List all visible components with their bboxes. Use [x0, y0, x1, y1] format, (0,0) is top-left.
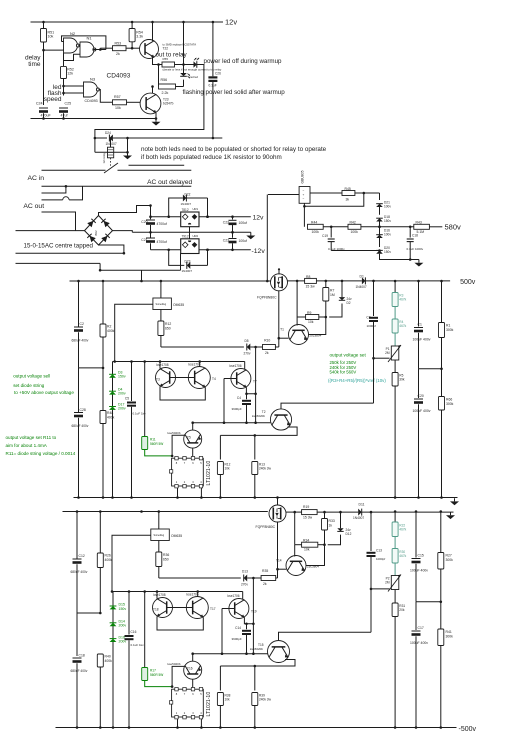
resistor R31 20k — [394, 590, 396, 604]
wire OM635 left pin — [115, 304, 153, 361]
wire T23 emitter to ground — [155, 113, 157, 119]
svg-text:100k: 100k — [351, 230, 359, 234]
wire 12v output — [199, 216, 251, 218]
wire feedback drop from gate bus bottom — [252, 578, 254, 654]
diode D16 100v — [379, 227, 381, 238]
svg-text:650: 650 — [165, 327, 171, 331]
wire bottom top rail — [63, 511, 268, 513]
svg-text:C13: C13 — [376, 549, 382, 553]
svg-text:R57: R57 — [114, 95, 121, 99]
capacitor C21 4700uf — [149, 231, 152, 234]
svg-text:R8: R8 — [306, 275, 310, 279]
bridge diode top-left — [87, 219, 95, 227]
svg-text:400k: 400k — [105, 659, 113, 663]
svg-text:12v: 12v — [225, 18, 237, 27]
svg-text:output voltage set R11 to: output voltage set R11 to — [6, 435, 57, 440]
svg-text:R55: R55 — [163, 57, 169, 61]
wire T3 T4 emitter link — [160, 386, 205, 400]
svg-text:T1: T1 — [280, 328, 284, 332]
wire Q1 source to R8 — [288, 280, 305, 282]
wire R52 top to N1 input — [64, 54, 81, 60]
svg-text:240k 3w: 240k 3w — [259, 698, 272, 702]
wire T22 collector to LED row — [153, 57, 163, 65]
svg-text:R10: R10 — [264, 338, 270, 342]
resistor R35 2k — [261, 576, 276, 581]
svg-text:580v: 580v — [445, 223, 462, 232]
svg-text:C25: C25 — [65, 102, 72, 106]
resistor R13 240k 3w — [252, 462, 258, 475]
transistor T23 BC547 — [140, 93, 161, 114]
svg-text:C18: C18 — [412, 234, 418, 238]
svg-text:R34: R34 — [303, 539, 309, 543]
wire AC in line after relay — [118, 169, 192, 171]
svg-text:C23: C23 — [223, 239, 229, 243]
svg-text:kse5020b: kse5020b — [168, 431, 181, 435]
wire T14 collector to gate line — [278, 568, 287, 570]
svg-text:200v: 200v — [118, 407, 126, 411]
wire N3 output to R57 — [99, 90, 113, 103]
svg-text:400k: 400k — [105, 558, 113, 562]
svg-text:47uf: 47uf — [61, 114, 68, 118]
wire 0v line — [132, 231, 251, 233]
svg-text:R7: R7 — [330, 289, 334, 293]
svg-text:D22: D22 — [185, 193, 191, 197]
mosfet Q2 FQPF8N80C — [269, 505, 286, 522]
svg-text:kse1706: kse1706 — [230, 364, 242, 368]
wire GBU805 input feed — [268, 194, 299, 196]
svg-text:out to relay: out to relay — [156, 52, 188, 59]
svg-text:to +50V above output voltage: to +50V above output voltage — [14, 390, 74, 395]
ground symbol 12v supply — [250, 232, 252, 235]
svg-text:12k: 12k — [67, 72, 73, 76]
gate N2 CD4093 — [64, 38, 78, 53]
capacitor C5 0.1uF 1kv — [131, 362, 133, 402]
svg-text:kse5020b: kse5020b — [250, 647, 263, 651]
resistor R56 — [158, 65, 160, 87]
svg-text:R36: R36 — [163, 553, 169, 557]
svg-text:C28: C28 — [80, 408, 86, 412]
capacitor C1 100uF 400v — [418, 281, 420, 327]
wire AC line 4 — [42, 212, 76, 231]
resistor R57 — [113, 100, 127, 105]
bridge diode bottom-right — [101, 234, 109, 242]
svg-text:0.1uF 1kv: 0.1uF 1kv — [133, 411, 147, 415]
svg-text:aim for about 1.4mA: aim for about 1.4mA — [6, 443, 48, 448]
svg-text:R12: R12 — [165, 322, 171, 326]
resistor R51 — [43, 22, 45, 29]
wire T7 emitter to feedback drop — [246, 387, 255, 394]
wire Q2 drain from mid rail — [277, 498, 279, 506]
svg-text:T14: T14 — [276, 559, 282, 563]
svg-text:T22: T22 — [163, 47, 169, 51]
svg-text:7812: 7812 — [182, 208, 189, 212]
svg-text:power led off during warmup: power led off during warmup — [204, 58, 283, 65]
svg-text:N3: N3 — [90, 77, 96, 82]
svg-text:10k: 10k — [225, 698, 231, 702]
svg-text:N2: N2 — [70, 31, 76, 36]
diode D15 150v — [112, 595, 114, 643]
svg-text:CD4093: CD4093 — [85, 99, 98, 103]
svg-text:if both leds populated reduce: if both leds populated reduce 1K resisto… — [141, 154, 282, 161]
svg-text:D11: D11 — [359, 502, 365, 506]
svg-text:R42: R42 — [350, 221, 356, 225]
svg-text:1N4007: 1N4007 — [106, 142, 117, 146]
wire gate bus bottom — [159, 577, 241, 579]
reference LT1021-10 — [172, 458, 204, 486]
diode D18 150v — [376, 218, 383, 221]
svg-text:100uF 400v: 100uF 400v — [410, 641, 428, 645]
wire N2 out to N1 in — [78, 45, 80, 47]
wire R39 column top — [254, 666, 256, 691]
wire bridge plus output — [99, 206, 151, 216]
svg-text:SomeReg: SomeReg — [156, 303, 167, 306]
mosfet Q1 FQPF8N80C — [271, 274, 288, 291]
transistor T19 — [229, 599, 249, 619]
wire relay bus upper — [95, 65, 204, 153]
svg-text:560R 5W: 560R 5W — [150, 673, 163, 677]
transistor T22 BC557 — [140, 40, 159, 59]
zener D12 24v — [340, 512, 342, 528]
svg-text:3900pF: 3900pF — [232, 407, 242, 411]
reference LT1021-10 bottom — [172, 689, 204, 717]
resistor R41 300k — [440, 602, 442, 629]
svg-text:speed: speed — [44, 96, 62, 103]
wire 580v output — [380, 226, 414, 228]
svg-text:C24: C24 — [36, 102, 43, 106]
capacitor C22 100uf — [232, 217, 234, 220]
svg-text:150v: 150v — [384, 219, 391, 223]
svg-text:C20: C20 — [418, 394, 424, 398]
relay switch blade — [104, 163, 118, 173]
svg-text:output voltage set: output voltage set — [330, 353, 367, 358]
diode D20 150v — [379, 238, 381, 247]
svg-text:set diode string: set diode string — [13, 383, 45, 388]
capacitor C4 3900pF — [246, 394, 248, 400]
resistor R12b 10k — [217, 462, 223, 475]
svg-text:650: 650 — [163, 558, 169, 562]
bridge diode bottom-left — [87, 234, 95, 242]
capacitor C12 680uF 400v — [76, 512, 78, 559]
svg-text:R53: R53 — [115, 42, 122, 46]
svg-text:0.1uF 1000v: 0.1uF 1000v — [407, 247, 424, 251]
wire R13 column top — [254, 435, 256, 459]
wire relay output stub — [129, 164, 185, 166]
wire T1 emitter to R7 column — [309, 333, 326, 335]
svg-text:CD4093: CD4093 — [107, 73, 131, 80]
svg-text:R35: R35 — [262, 569, 268, 573]
transistor T7 — [231, 369, 251, 389]
svg-text:D12: D12 — [346, 532, 352, 536]
svg-text:C26: C26 — [215, 72, 221, 76]
wire C19 bottom — [331, 250, 379, 252]
wire gate bus — [161, 346, 244, 348]
wire 12v top rail — [31, 21, 224, 23]
resistor R45 3k — [342, 191, 355, 196]
svg-text:2k: 2k — [265, 351, 269, 355]
wire R34 column to rail bottom — [294, 512, 296, 545]
wire gate drive riser — [278, 291, 280, 347]
resistor R54 — [131, 22, 133, 29]
wire R9 column to rail — [296, 281, 298, 317]
capacitor C2 680uF 400v — [78, 281, 80, 327]
svg-text:2M: 2M — [385, 581, 390, 585]
resistor R11 green 560R 5W — [144, 362, 146, 437]
svg-text:T18: T18 — [153, 608, 159, 612]
svg-text:flashing power led solid after: flashing power led solid after warmup — [183, 89, 286, 96]
svg-text:3k: 3k — [346, 198, 350, 202]
wire T1 collector to gate line — [279, 337, 289, 339]
resistor R4 467k green — [392, 319, 398, 333]
svg-text:R26: R26 — [105, 554, 111, 558]
zener D5 270v — [247, 344, 251, 351]
svg-text:D23: D23 — [185, 260, 191, 264]
wire chain bottom to ground — [380, 254, 419, 260]
wire AC out line with hop — [42, 199, 63, 201]
svg-text:470uF: 470uF — [41, 114, 52, 118]
transistor T14 2sc3804 — [286, 556, 306, 576]
svg-text:4700uf: 4700uf — [157, 240, 167, 244]
svg-text:C5: C5 — [125, 397, 129, 401]
capacitor C26 0.1uF — [212, 22, 214, 76]
svg-text:2k: 2k — [263, 582, 267, 586]
svg-text:R45: R45 — [345, 187, 351, 191]
wire C1 R1 junction — [419, 368, 442, 370]
svg-text:T16: T16 — [187, 667, 193, 671]
wire R12 column — [219, 435, 221, 459]
wire R51 to gate N2 — [42, 49, 45, 52]
svg-text:400k: 400k — [107, 416, 115, 420]
resistor R36 650 — [158, 541, 160, 553]
resistor R53 — [93, 49, 100, 51]
wire R45 to diode chain — [355, 192, 380, 194]
svg-text:1k: 1k — [329, 524, 333, 528]
gate N1 CD4093 — [80, 42, 94, 57]
svg-text:15-0-15AC centre tapped: 15-0-15AC centre tapped — [24, 243, 94, 250]
svg-text:kse5020b: kse5020b — [168, 662, 181, 666]
svg-text:D5: D5 — [245, 339, 249, 343]
wire R8 to D1 and R7 node — [316, 280, 362, 282]
capacitor C20 4700uf — [150, 206, 152, 220]
wire T3 T4 base link — [170, 377, 195, 379]
resistor R2 400k — [102, 281, 104, 324]
svg-text:12v: 12v — [253, 215, 265, 222]
wire T23 base from R57 — [127, 101, 141, 103]
svg-text:1N4007: 1N4007 — [181, 202, 192, 206]
svg-text:UR1: UR1 — [193, 207, 199, 211]
diode D3 150v — [112, 365, 114, 431]
green diode string feed — [112, 362, 114, 369]
svg-text:kse5020b: kse5020b — [252, 414, 265, 418]
diode D4 200v — [109, 391, 116, 394]
svg-text:R33: R33 — [329, 519, 335, 523]
svg-text:467k: 467k — [399, 528, 406, 532]
svg-text:4700uf: 4700uf — [157, 222, 167, 226]
svg-text:2k: 2k — [116, 52, 120, 56]
svg-text:12v relay: 12v relay — [102, 152, 106, 163]
svg-text:7912: 7912 — [182, 235, 189, 239]
ground symbol mid rail end — [454, 498, 456, 501]
svg-text:300k: 300k — [446, 402, 454, 406]
wire cluster feed row — [113, 361, 245, 363]
svg-text:AC out delayed: AC out delayed — [147, 179, 192, 186]
svg-text:C15: C15 — [418, 554, 424, 558]
svg-text:R44: R44 — [311, 221, 317, 225]
wire relay contact dashes — [110, 158, 112, 167]
resistor R7 1M — [325, 281, 327, 288]
wire T5 base to LT1021 pin — [192, 448, 194, 457]
svg-text:time: time — [28, 61, 41, 68]
wire relay bus lower to ground — [95, 151, 128, 153]
svg-text:270v: 270v — [241, 583, 248, 587]
wire T2 collector line — [281, 403, 374, 409]
wire T16 base to LT1021 pin bottom — [192, 679, 194, 689]
svg-text:R41: R41 — [446, 630, 452, 634]
svg-text:10k: 10k — [115, 106, 121, 110]
svg-text:OM635: OM635 — [173, 303, 184, 307]
svg-text:680uF 400v: 680uF 400v — [72, 424, 89, 428]
resistor R1 300k — [441, 281, 443, 323]
resistor R52 — [63, 54, 65, 67]
capacitor C14 3900pF — [246, 624, 248, 630]
svg-text:bc547b: bc547b — [163, 102, 174, 106]
wire N1 feedback to N2 — [95, 49, 106, 51]
ground symbol 580v — [418, 260, 420, 263]
svg-text:100uF 400v: 100uF 400v — [413, 409, 431, 413]
wire pot wiper feedback — [374, 357, 390, 359]
resistor R12 650 — [160, 310, 162, 322]
svg-text:150v: 150v — [384, 250, 391, 254]
wire cluster feed row bottom — [113, 591, 243, 593]
wire T16 emitter to reference node — [172, 666, 185, 686]
wire R42 to chain — [361, 226, 380, 228]
green diode string feed bottom — [112, 592, 114, 603]
wire T1 base from R9 — [296, 317, 298, 326]
svg-text:R43: R43 — [416, 221, 422, 225]
resistor R38 10k — [217, 693, 223, 706]
svg-text:680uF 400v: 680uF 400v — [71, 669, 88, 673]
wire T19 collector to feed row — [242, 592, 244, 599]
wire AC line 2 — [42, 185, 192, 187]
wire T19 base from base row — [222, 608, 235, 610]
transformer secondary wires — [16, 230, 85, 232]
svg-text:D1: D1 — [360, 275, 364, 279]
svg-text:R56: R56 — [161, 78, 168, 82]
svg-text:T7: T7 — [253, 380, 257, 384]
svg-text:D24: D24 — [105, 131, 111, 135]
wire LED row — [182, 63, 185, 66]
svg-text:OM635: OM635 — [171, 534, 182, 538]
svg-text:3.3k: 3.3k — [136, 35, 143, 39]
transistor T16 kse5020b — [192, 654, 194, 662]
svg-text:100uF 400v: 100uF 400v — [410, 569, 428, 573]
wire diode string to rail bottom — [112, 642, 114, 728]
wire T19 emitter to feedback drop — [244, 617, 253, 624]
bridge diode top-right — [101, 219, 109, 227]
transistor T3 — [156, 368, 176, 388]
svg-text:1N4007: 1N4007 — [356, 285, 367, 289]
ground symbol bottom rail end — [450, 512, 452, 515]
potentiometer P2 2M — [391, 576, 399, 590]
svg-text:R27: R27 — [446, 554, 452, 558]
resistor R8 15 3w — [305, 278, 317, 283]
led LED1 power led — [175, 64, 194, 66]
transistor T15 kse5020b — [268, 641, 290, 663]
resistor R30 467k green — [392, 549, 398, 564]
wire LT1021 bottom pins to rail — [177, 488, 179, 498]
transistor T1 2sc3804 — [289, 325, 309, 345]
wire C15 R27 junction — [416, 601, 441, 603]
svg-text:100uF 400v: 100uF 400v — [413, 338, 431, 342]
svg-text:AC out: AC out — [23, 203, 44, 210]
svg-text:-12v: -12v — [252, 248, 266, 255]
zener D2 24v — [341, 281, 343, 297]
svg-text:1N4007: 1N4007 — [353, 516, 364, 520]
svg-text:300k: 300k — [446, 558, 454, 562]
wire N3 inputs from R52 node — [62, 85, 65, 88]
diode D14 200v — [110, 623, 117, 626]
wire mid bottom rail — [74, 497, 458, 499]
wire T7 base from base row — [224, 378, 237, 380]
capacitor C3 1000pf — [373, 281, 375, 316]
optocoupler OM635 — [153, 298, 172, 310]
wire bottom rail -500v — [56, 727, 457, 729]
svg-text:300k: 300k — [446, 635, 454, 639]
diode D23 1N4007 bypass — [169, 250, 185, 266]
resistor R42 100k — [348, 224, 361, 229]
svg-text:200v: 200v — [119, 624, 127, 628]
resistor R48 400k — [102, 410, 104, 412]
svg-text:560R 5W: 560R 5W — [150, 442, 163, 446]
regulator UR2 7912 — [151, 249, 181, 251]
gate N3 CD4093 — [84, 82, 98, 97]
wire T7 collector to feed row — [244, 362, 246, 369]
svg-text:10k: 10k — [308, 320, 314, 324]
svg-text:AC in: AC in — [27, 175, 44, 182]
svg-text:C16: C16 — [131, 630, 137, 634]
transistor T18 — [153, 598, 173, 618]
wire ground rail top section — [31, 118, 157, 120]
wire C2 R2 junction — [79, 367, 104, 369]
wire diode string to rail — [112, 410, 114, 498]
capacitor C19 0.1uF 1000v — [330, 227, 332, 238]
wire R19 to D11 and R33 node — [317, 511, 358, 513]
wire Q2 source to R19 — [286, 511, 302, 513]
svg-text:C17: C17 — [418, 626, 424, 630]
svg-text:LT1021-10: LT1021-10 — [206, 692, 212, 717]
svg-text:GBU805: GBU805 — [301, 170, 305, 183]
resistor R9 10k — [297, 316, 306, 318]
svg-text:15 3w: 15 3w — [303, 516, 313, 520]
wire T5 emitter to reference node — [172, 435, 185, 456]
relay coil RL1 — [110, 138, 112, 147]
svg-text:15 3w: 15 3w — [306, 285, 316, 289]
svg-text:1000pf: 1000pf — [367, 324, 376, 328]
regulator UR1 7812 — [181, 212, 199, 227]
svg-text:150v: 150v — [119, 607, 127, 611]
svg-text:R19: R19 — [303, 505, 309, 509]
wire pot wiper feedback bottom — [371, 588, 390, 590]
svg-text:R2: R2 — [107, 325, 111, 329]
wire LT1021 bottom pins to rail bottom — [177, 719, 179, 727]
resistor R39 240k 3w — [252, 693, 258, 706]
wire center tap stub — [42, 186, 66, 193]
svg-text:2M: 2M — [385, 351, 390, 355]
svg-text:C2: C2 — [80, 322, 84, 326]
wire T14 emitter to R33 column — [306, 564, 325, 566]
wire bridge bottom to minus — [99, 245, 124, 253]
transistor T4 — [188, 367, 210, 389]
svg-text:note both leds need to be popu: note both leds need to be populated or s… — [141, 146, 327, 153]
